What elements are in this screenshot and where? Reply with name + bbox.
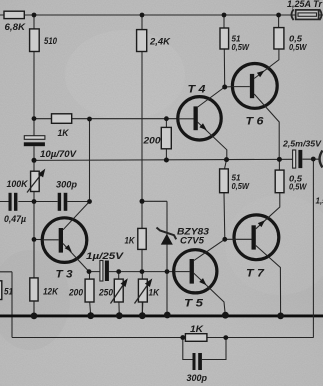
svg-text:200: 200 [142, 136, 161, 147]
svg-text:200: 200 [68, 288, 83, 298]
wire 51-ohm lower branch [224, 160, 227, 240]
wire mid feedback rail y=159 [34, 159, 319, 160]
zener diode BZY83/C7V5 [157, 228, 177, 245]
wire output vertical [312, 159, 314, 338]
wire 1K pot stubs [141, 302, 144, 316]
wire 1K/300p parallel loop [183, 338, 226, 360]
transistor T6 [225, 49, 280, 160]
svg-text:T 5: T 5 [184, 298, 204, 310]
svg-text:1K: 1K [58, 128, 70, 139]
wire vertical x=89.5 (collector T3 node to 1K rail) [89, 119, 91, 202]
svg-text:1K: 1K [149, 288, 161, 298]
svg-text:2,4K: 2,4K [149, 37, 171, 48]
svg-text:1,5: 1,5 [316, 197, 323, 206]
resistor 51 left edge [0, 281, 2, 300]
svg-text:1,25A Tr: 1,25A Tr [287, 0, 322, 9]
svg-text:300p: 300p [187, 373, 208, 384]
capacitor 300p bottom [193, 353, 202, 370]
svg-text:1K: 1K [190, 324, 204, 335]
wire left vertical chain x=34 [33, 15, 35, 316]
svg-text:0,5W: 0,5W [289, 183, 308, 192]
capacitor 1u/25V [100, 261, 109, 282]
svg-text:100K: 100K [7, 179, 29, 189]
resistor 12K [30, 278, 38, 301]
wire top supply rail [0, 14, 323, 16]
wire 0,5-ohm top stub [278, 15, 280, 28]
wire 51-ohm top branch [223, 15, 226, 87]
potentiometer 100K [27, 169, 45, 193]
wire 200-ohm bottom stubs [90, 272, 91, 316]
resistor 1K top [52, 114, 72, 124]
wire zener branch [142, 201, 167, 315]
svg-text:0,5W: 0,5W [232, 182, 251, 191]
svg-text:0,5W: 0,5W [232, 43, 251, 52]
capacitor 0,47u [9, 193, 18, 211]
resistor 6,8K [4, 11, 24, 18]
output terminal arc [320, 151, 323, 168]
transistor T7 [225, 193, 281, 316]
svg-text:10µ/70V: 10µ/70V [40, 149, 77, 159]
resistor 1K return [185, 334, 207, 342]
resistor 0,5 top [274, 28, 284, 49]
wire 250 pot stubs [118, 272, 121, 316]
wire emitter rail y=271.6 [89, 271, 174, 273]
capacitor 2,5m/35V [293, 150, 303, 168]
capacitor 10u/70V [24, 136, 45, 147]
svg-text:0,5W: 0,5W [289, 43, 308, 52]
wire T3 base stub [34, 239, 43, 241]
svg-text:T 7: T 7 [246, 268, 265, 280]
ground bus (thick) [0, 314, 323, 317]
svg-text:2,5m/35V: 2,5m/35V [282, 139, 322, 149]
svg-text:0,47µ: 0,47µ [4, 214, 26, 224]
wire base rail y=119 [34, 118, 178, 120]
svg-text:1µ/25V: 1µ/25V [86, 251, 124, 261]
resistor 510 [30, 29, 40, 52]
transistor T4 [178, 87, 227, 160]
fuse 1,25A [291, 9, 321, 20]
resistor 200 bottom [85, 279, 94, 302]
transistor T3 [42, 202, 89, 272]
svg-text:C7V5: C7V5 [180, 236, 205, 246]
transistor T5 [174, 239, 226, 315]
svg-text:1K: 1K [125, 236, 136, 247]
resistor 200 mid [161, 127, 171, 148]
resistor 1K mid [138, 228, 146, 249]
resistor 51 lower [220, 169, 229, 193]
resistor 2,4K [137, 30, 147, 52]
wire bottom return y=337.5 [12, 337, 314, 339]
resistor 0,5 lower [275, 170, 284, 193]
svg-text:510: 510 [44, 36, 58, 47]
svg-text:51: 51 [4, 287, 13, 297]
svg-text:250: 250 [98, 288, 113, 298]
svg-text:6,8K: 6,8K [5, 22, 27, 33]
svg-text:300p: 300p [56, 180, 78, 190]
wire input rail y=201.5 [0, 201, 90, 203]
svg-text:T 4: T 4 [188, 84, 206, 96]
wire 0,5-ohm lower stub [278, 159, 280, 170]
wire left edge loop [0, 272, 12, 338]
resistor 51 top [220, 28, 229, 49]
svg-text:12K: 12K [43, 287, 59, 297]
wire vertical chain x=141.8 (2,4K branch) [141, 15, 143, 316]
svg-text:T 6: T 6 [246, 116, 265, 128]
wire 12K stubs [33, 239, 35, 316]
potentiometer 1K [135, 278, 153, 303]
svg-text:T 3: T 3 [56, 269, 73, 281]
capacitor 300p input [58, 193, 68, 211]
potentiometer 250 [111, 278, 128, 303]
wire 200-ohm mid stubs [165, 119, 167, 160]
